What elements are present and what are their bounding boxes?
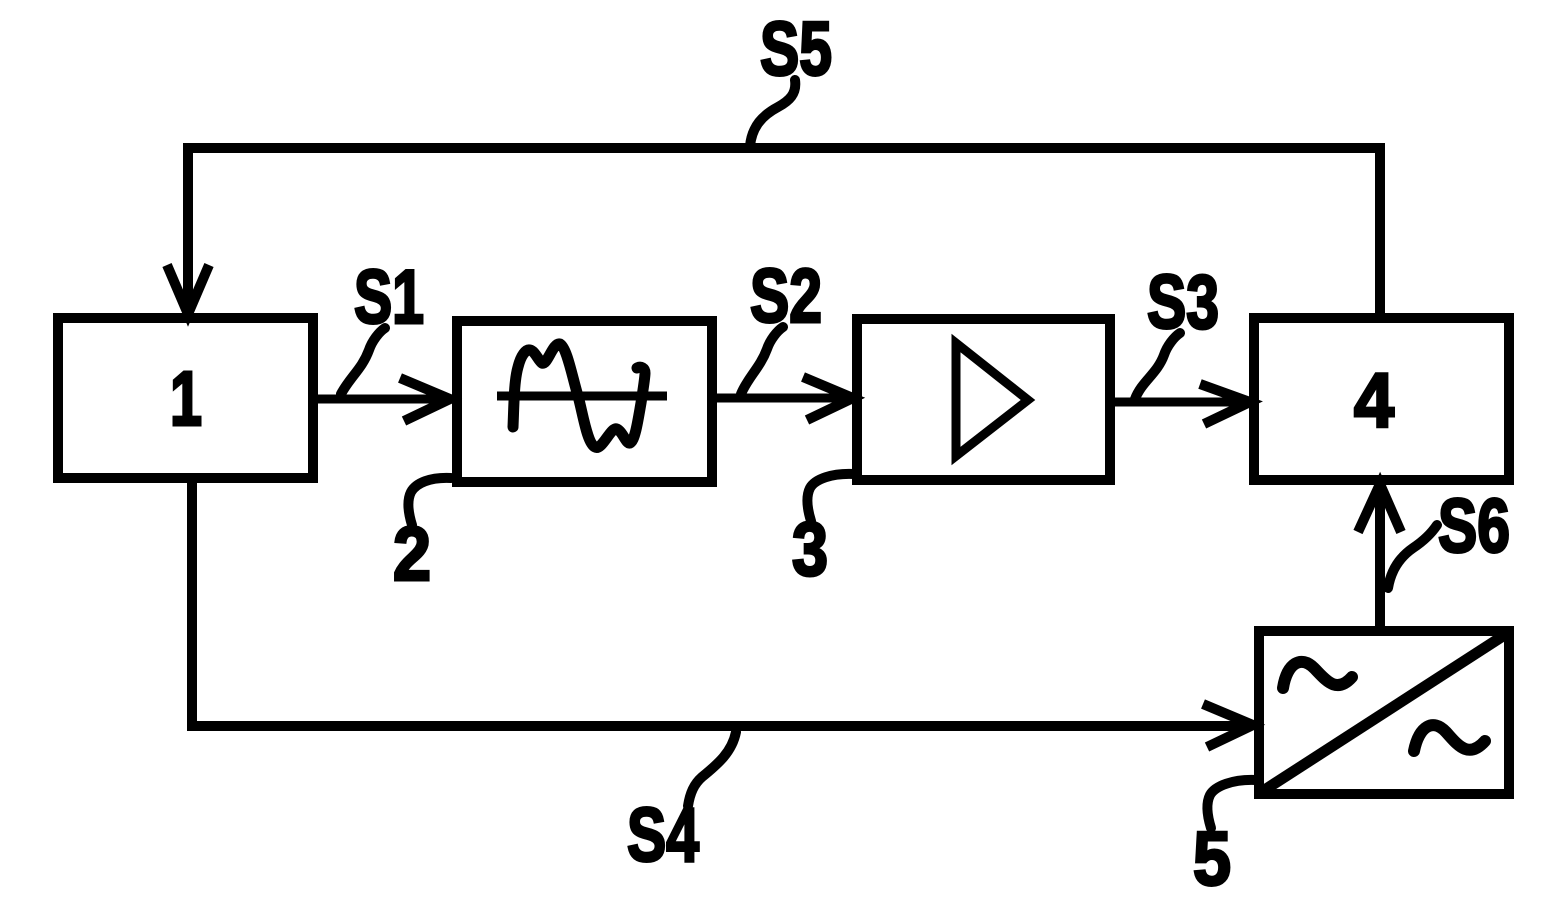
leader 5: [1207, 780, 1256, 828]
leader S5: [750, 80, 795, 146]
wire S3 line: [1110, 398, 1246, 407]
block 1: [58, 318, 313, 478]
block 5 diagonal: [1263, 634, 1506, 791]
leader 3: [807, 474, 854, 521]
arrowhead into block 4: [1200, 384, 1250, 424]
svg-text:1: 1: [170, 356, 202, 442]
wire S2 line: [712, 394, 849, 403]
amplifier triangle: [956, 343, 1028, 456]
block 5 tilde bottom-right: [1414, 725, 1485, 751]
leader S2: [741, 327, 783, 394]
wire S4 (block 1 bottom to block 5 left): [192, 478, 1248, 726]
svg-text:4: 4: [1354, 358, 1394, 444]
waveform axis: [497, 392, 667, 401]
wire S5 feedback (block 4 top to block 1 top): [188, 148, 1380, 318]
block 2 (waveform shaper): [457, 321, 712, 482]
leader S4: [688, 732, 736, 806]
arrowhead into block 3: [803, 377, 853, 420]
leader S3: [1135, 333, 1180, 399]
arrowhead into block 2: [400, 378, 450, 421]
arrowhead into block 4 bottom: [1358, 484, 1401, 532]
leader S1: [341, 328, 385, 394]
svg-text:S6: S6: [1438, 484, 1510, 569]
leader S6: [1388, 525, 1437, 588]
leader 2: [408, 478, 451, 525]
wire S6 (block 5 top to block 4 bottom): [1375, 488, 1385, 631]
block 5 (converter): [1259, 631, 1509, 794]
arrowhead into block 5: [1203, 704, 1253, 747]
waveform curve: [513, 344, 645, 448]
block 3 (amplifier): [857, 319, 1110, 480]
wire S1 line: [313, 395, 446, 404]
block 5 tilde top-left: [1283, 662, 1352, 688]
arrowhead into block 1 top: [167, 265, 209, 314]
block 4: [1254, 318, 1509, 480]
